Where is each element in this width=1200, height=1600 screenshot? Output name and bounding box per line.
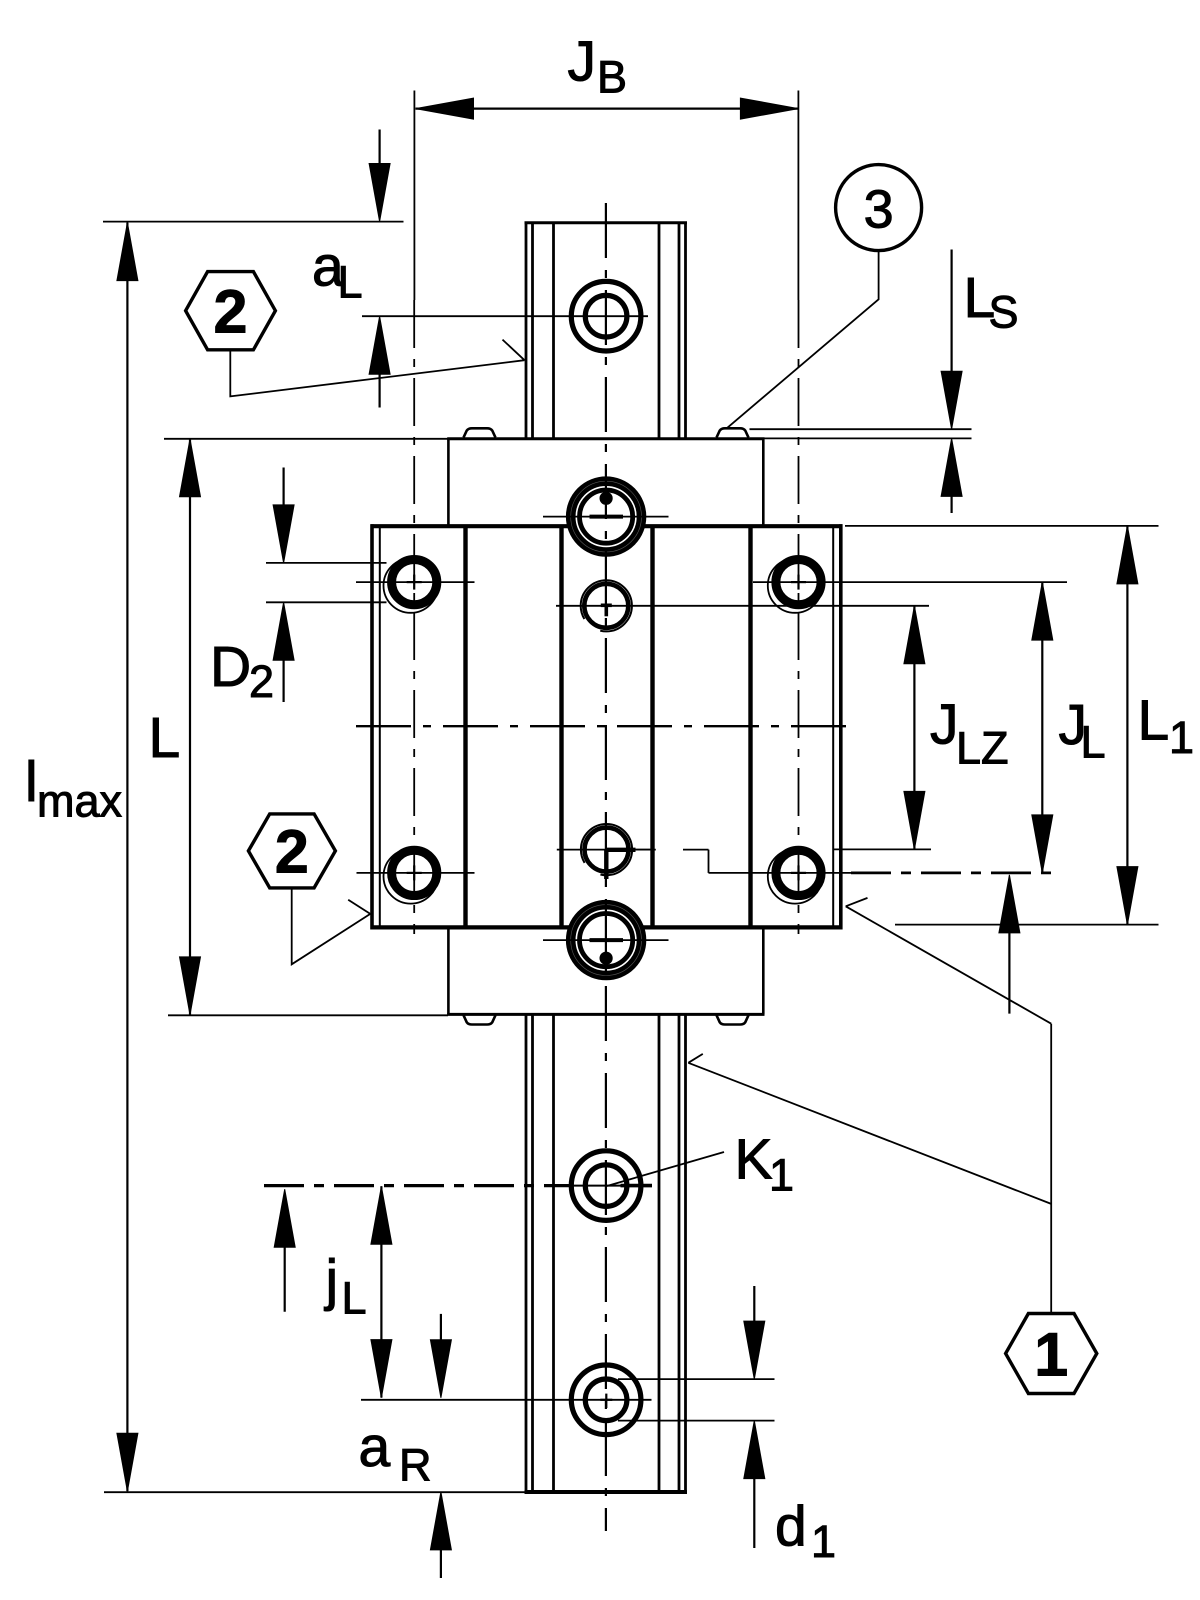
leader from circle 3 <box>727 251 878 428</box>
svg-text:R: R <box>399 1440 432 1491</box>
crosshair hole top-left <box>356 581 475 583</box>
dimension D2 arrows <box>273 468 294 703</box>
svg-text:J: J <box>568 30 597 94</box>
K1 hole centerline (jL upper reference) <box>264 1184 573 1187</box>
counterbored mounting hole top-left (D2) <box>384 558 438 612</box>
dimension JB <box>416 98 799 119</box>
svg-text:2: 2 <box>249 656 274 707</box>
rail fixing hole top <box>571 281 641 351</box>
leader from hexagon 2 upper <box>230 340 524 397</box>
L1 lower extension line <box>895 924 1159 926</box>
dimension jL <box>371 1186 392 1397</box>
rail bottom edge extension line <box>104 1491 525 1493</box>
svg-text:1: 1 <box>1169 712 1194 763</box>
counterbored mounting hole bottom-right <box>768 849 822 903</box>
end plate bottom clamp tab left <box>464 1015 496 1024</box>
svg-text:a: a <box>359 1415 391 1479</box>
crosshair top rail hole / aL lower reference <box>362 315 648 317</box>
carriage section lines <box>466 527 751 928</box>
leader from hexagon 1 to carriage edge <box>846 898 1051 1314</box>
L1 upper extension line <box>845 525 1159 527</box>
d1 tangent line upper <box>618 1378 775 1380</box>
svg-text:K: K <box>735 1128 773 1192</box>
dimension l_max <box>117 223 138 1492</box>
rail axis centerline <box>605 203 607 1531</box>
left hole column centerline <box>413 300 415 934</box>
guide rail top section <box>525 223 688 439</box>
svg-text:j: j <box>324 1248 339 1312</box>
LS upper reference line (tab top) <box>750 428 972 430</box>
reference arrow to JL chain line (right) <box>999 875 1020 1014</box>
callout circle 3 (seal strip) <box>836 165 922 251</box>
counterbored mounting hole top-right <box>768 558 822 612</box>
callout hexagon 2 (upper, rail side face) <box>186 272 276 350</box>
svg-text:2: 2 <box>275 818 309 886</box>
svg-text:D: D <box>210 635 251 699</box>
dimension d1 <box>744 1286 765 1548</box>
end plate top clamp tab left <box>464 428 496 437</box>
callout hexagon 1 (bottom right) <box>1006 1314 1097 1394</box>
svg-text:l: l <box>25 750 38 814</box>
svg-text:L: L <box>338 257 363 308</box>
end plate top clamp tab right <box>717 428 749 437</box>
svg-text:S: S <box>989 287 1019 338</box>
end plate top extension line (L upper reference) <box>164 438 448 440</box>
counterbored mounting hole bottom-left <box>384 849 438 903</box>
rail top edge extension line (l_max / aL upper reference) <box>103 221 404 223</box>
carriage body outline <box>371 524 843 929</box>
carriage inner offset lines <box>380 527 833 928</box>
reference arrow to K1 centerline (left) <box>274 1189 295 1312</box>
threaded lubrication hole lower (carriage centre) <box>581 824 632 875</box>
crosshair hole top-right / JL upper extension <box>753 581 1067 583</box>
end plate bottom <box>447 926 764 1014</box>
end plate bottom clamp tab right <box>717 1015 749 1024</box>
jogged extension from lower threaded hole <box>632 850 753 873</box>
crosshair bottom rail hole / jL lower reference <box>361 1399 652 1401</box>
D2 tangent line upper <box>266 562 387 564</box>
svg-text:1: 1 <box>1034 1321 1068 1389</box>
JB right extension line <box>797 91 799 301</box>
svg-text:d: d <box>775 1495 807 1559</box>
JLZ lower extension line <box>834 848 932 850</box>
JB left extension line <box>413 91 415 301</box>
dimension aR <box>430 1314 451 1578</box>
svg-text:2: 2 <box>214 278 248 346</box>
JLZ upper extension line (through upper threaded hole) <box>556 605 929 607</box>
leader from hexagon 2 lower <box>292 888 371 964</box>
rail fixing hole K1 <box>571 1151 641 1221</box>
svg-text:L: L <box>149 706 181 770</box>
leader from hexagon 1 to rail edge <box>688 1054 1051 1204</box>
dimension L1 <box>1117 526 1138 925</box>
dimension JL <box>1032 582 1053 873</box>
svg-text:J: J <box>930 693 959 757</box>
lubrication port hole top end plate <box>571 481 642 552</box>
lubrication port hole bottom end plate <box>571 905 642 976</box>
rail fixing hole bottom (d1) <box>571 1365 641 1435</box>
callout hexagon 2 (lower, carriage side face) <box>248 814 335 888</box>
svg-text:L: L <box>342 1273 367 1324</box>
svg-text:3: 3 <box>864 180 894 240</box>
dimension aL <box>369 130 390 408</box>
dimension L <box>180 439 201 1015</box>
leader K1 <box>607 1152 724 1186</box>
svg-text:B: B <box>597 52 627 103</box>
LS lower reference line (plate top) <box>750 437 972 439</box>
d1 tangent line lower <box>618 1420 775 1422</box>
svg-text:L: L <box>1138 689 1170 753</box>
end plate top <box>447 439 764 526</box>
svg-text:1: 1 <box>769 1150 794 1201</box>
right hole column centerline <box>798 300 800 934</box>
threaded lubrication hole upper (carriage centre) <box>581 580 632 631</box>
svg-text:1: 1 <box>811 1516 836 1567</box>
carriage horizontal centerline <box>356 725 857 727</box>
rail bottom edge <box>525 1490 688 1494</box>
svg-text:max: max <box>37 776 123 827</box>
D2 tangent line lower <box>266 601 387 603</box>
end plate bottom extension line (L lower reference) <box>168 1014 448 1016</box>
dimension JLZ <box>904 606 925 850</box>
crosshair hole bottom-left <box>357 872 475 874</box>
crosshair hole bottom-right <box>752 872 851 874</box>
dimension LS <box>941 250 962 514</box>
svg-text:L: L <box>1081 717 1106 768</box>
JL lower reference chain line <box>851 872 1053 875</box>
svg-text:LZ: LZ <box>956 723 1009 774</box>
guide rail bottom section <box>526 1015 686 1492</box>
